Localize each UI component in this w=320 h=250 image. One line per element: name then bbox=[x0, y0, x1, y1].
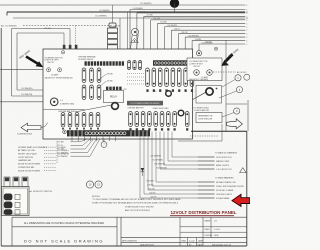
wire y140 box bottom bbox=[178, 140, 222, 142]
wire drop x120 bbox=[119, 18, 121, 49]
box right vertical bbox=[221, 124, 223, 141]
fuse S5 bbox=[154, 112, 158, 127]
wire fan route 3 bbox=[164, 132, 215, 166]
fuse R2 bbox=[152, 68, 156, 87]
balloon edge partial bbox=[244, 74, 250, 80]
wire staircase 8 bbox=[178, 33, 245, 35]
wire dashed vertical x57 bbox=[56, 141, 58, 164]
wire fan route 8 bbox=[144, 137, 215, 194]
wire left loop outer bbox=[12, 28, 71, 30]
fuse R4 bbox=[165, 68, 169, 87]
balloon 7 leader bbox=[103, 139, 105, 142]
grommet ring bottom right bbox=[178, 110, 184, 116]
title block grid bbox=[120, 217, 122, 246]
heavy line y131 bbox=[191, 130, 247, 132]
terminal strip TS2 bottom bbox=[67, 130, 150, 136]
wire top bus y5 bbox=[0, 4, 170, 6]
wire fan route 1 bbox=[172, 132, 215, 158]
wire dot stem bbox=[174, 3, 176, 12]
drawing frame left border bbox=[0, 28, 2, 246]
fuse R5 bbox=[171, 68, 175, 87]
solenoid M1 terminals bbox=[127, 49, 132, 56]
fuse S7 bbox=[167, 112, 171, 127]
reset button symbol top bbox=[61, 51, 64, 54]
drop landing blocks bbox=[63, 45, 66, 49]
callout box B buzzer bbox=[196, 86, 222, 104]
wire bus y18 bbox=[13, 17, 245, 19]
wire left y100 to J1 bbox=[0, 101, 50, 103]
fuse R7 bbox=[184, 68, 188, 87]
fuse S8 bbox=[173, 112, 177, 127]
title block top line bbox=[12, 216, 247, 218]
fuse L6 bbox=[96, 113, 100, 128]
button B2 bbox=[58, 68, 62, 72]
wire to J2 bbox=[75, 105, 112, 112]
fuse column F1 bbox=[82, 68, 86, 83]
balloon 10 bbox=[86, 181, 93, 188]
connector pins below CB1 bbox=[103, 56, 106, 61]
fuse S4 bbox=[148, 112, 152, 127]
callout box A reset button bbox=[187, 58, 222, 81]
terminal strip TS1 bbox=[85, 61, 87, 65]
circuit breaker CB1 bbox=[108, 23, 118, 55]
wire staircase 11 bbox=[199, 43, 245, 45]
fuse L5 bbox=[89, 113, 93, 128]
wire into buzzer bbox=[193, 92, 206, 99]
wire left y69 bbox=[0, 69, 47, 71]
wire fan route 6 bbox=[152, 132, 215, 187]
switch rocker 3 bbox=[4, 209, 13, 215]
fuse S6 bbox=[160, 112, 164, 127]
callout box D bbox=[196, 113, 222, 123]
wire M1 drop bbox=[127, 12, 129, 49]
label band DC LT power distribution center bbox=[127, 101, 163, 106]
separator line y104 bbox=[226, 103, 247, 105]
grommet J2b bbox=[166, 91, 172, 97]
wire staircase 4 bbox=[151, 19, 246, 21]
fuse S1 bbox=[129, 112, 133, 127]
diode D1 bbox=[141, 168, 145, 172]
fuse column F5 bbox=[90, 85, 94, 100]
wire staircase 9 bbox=[185, 36, 245, 38]
short fuse pills left of TS3 bbox=[127, 61, 130, 70]
wire staircase 5 bbox=[158, 22, 246, 24]
wire CB1 feed bbox=[112, 5, 114, 23]
speck text rows x127 bbox=[127, 73, 144, 75]
junction dot top bbox=[170, 0, 179, 8]
wire staircase 7 bbox=[171, 29, 245, 31]
button B4 bbox=[207, 70, 213, 76]
annotation RED WIRE right arrow bbox=[226, 54, 233, 61]
fuse S3 bbox=[141, 112, 145, 127]
wire fan route 9 bbox=[140, 137, 215, 198]
fuse R8 bbox=[190, 68, 194, 87]
balloon 3 bbox=[234, 108, 240, 114]
wire from arrow bbox=[41, 123, 48, 128]
balloon 1 bbox=[235, 75, 241, 81]
wire staircase 1 bbox=[130, 9, 245, 11]
M1 bell bbox=[131, 39, 139, 43]
vertical separator x226 bbox=[225, 40, 227, 131]
wire stubs under strip bbox=[71, 137, 73, 142]
terminal strip TS3 right bbox=[153, 60, 191, 65]
fuse L3 bbox=[75, 113, 79, 128]
fuse L1 bbox=[61, 113, 65, 128]
relay K1 bbox=[104, 91, 124, 103]
fuse L4 bbox=[82, 113, 86, 128]
fuse column F2 bbox=[90, 68, 94, 83]
wire fan route 7 bbox=[148, 137, 215, 190]
wire heavy bus y12 bbox=[7, 11, 245, 13]
button B3 bbox=[194, 70, 200, 76]
wire dashed bus y25 bbox=[23, 25, 112, 27]
wire left loop inner bbox=[17, 32, 64, 34]
warning triangle bbox=[240, 168, 246, 173]
wire AC IN dashed bbox=[213, 71, 236, 73]
pulley M1 belt bbox=[131, 35, 133, 50]
drawing frame bottom border bbox=[1, 245, 246, 247]
button B1 bbox=[47, 68, 51, 72]
dashed wire y136 bbox=[190, 135, 218, 137]
wire drop x70 bbox=[69, 29, 71, 50]
grommet J2 bbox=[112, 103, 119, 110]
fuse R1 bbox=[146, 68, 150, 87]
switch rocker 2 bbox=[4, 202, 13, 209]
panel divider line bbox=[43, 109, 85, 111]
fuse R6 bbox=[177, 68, 181, 87]
balloon 5 bbox=[236, 87, 242, 93]
wire fan route 4 bbox=[160, 132, 215, 170]
wire staircase 2 bbox=[137, 12, 245, 14]
wire staircase 6 bbox=[165, 26, 246, 28]
connector J1 chassis gnd bbox=[50, 98, 58, 106]
connector slide switch box terminals bbox=[4, 177, 28, 187]
panel 12V distribution outline bbox=[43, 49, 193, 139]
strip screw left bbox=[63, 130, 67, 134]
wire fan route 5 bbox=[156, 132, 215, 183]
fuse column F6 bbox=[97, 85, 101, 100]
fuse R3 bbox=[158, 68, 162, 87]
red arrow bbox=[232, 194, 250, 206]
label slide rot switch bbox=[29, 190, 32, 193]
wire fan route 2 bbox=[168, 132, 215, 162]
balloon 7 bbox=[101, 142, 107, 148]
scan noise overlay bbox=[0, 0, 1, 1]
button on box A top bbox=[214, 47, 217, 50]
fuse S2 bbox=[135, 112, 139, 127]
dimensions note box bbox=[12, 226, 117, 228]
wire drop x75.5 dashed bbox=[75, 26, 77, 52]
fuse column F4 bbox=[82, 85, 86, 100]
drawing frame right border bbox=[246, 131, 248, 246]
breaker button symbol bbox=[196, 51, 201, 56]
fuse S10 bbox=[185, 112, 189, 127]
switch rocker 1 bbox=[4, 194, 13, 201]
connector slide switch box bbox=[2, 187, 30, 216]
solenoid M1 circle bbox=[131, 28, 138, 35]
wire staircase 3 bbox=[144, 15, 245, 17]
fuse L2 bbox=[68, 113, 72, 128]
wire staircase 10 bbox=[192, 40, 245, 42]
hollow arrow license bulb bbox=[21, 123, 41, 131]
hollow arrow right bbox=[227, 119, 243, 129]
balloon leader lines bbox=[222, 79, 235, 87]
balloon 15 bbox=[95, 181, 102, 188]
fuse column F3 bbox=[97, 68, 101, 83]
terminal mini row bbox=[106, 87, 108, 90]
buzzer ring bbox=[206, 88, 213, 95]
wire drop x64 bbox=[63, 33, 65, 50]
